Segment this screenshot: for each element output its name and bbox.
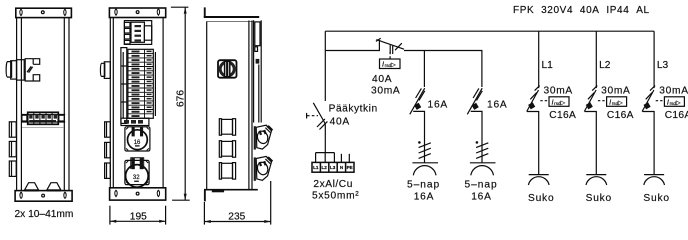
svg-text:Suko: Suko xyxy=(586,193,612,204)
din terminal left strip xyxy=(121,48,127,124)
svg-text:I rsd▷: I rsd▷ xyxy=(667,97,681,106)
terminal block X1 xyxy=(312,162,354,172)
conductor dot branch1 xyxy=(418,141,421,144)
supply comb drop L3 xyxy=(333,153,335,163)
conductor slashes branch2 xyxy=(476,143,488,148)
breaker F2 blade xyxy=(467,88,482,114)
bottom bracket left slot xyxy=(115,190,117,196)
RCD main sensor box xyxy=(380,59,401,69)
din comb contact dashes xyxy=(132,51,152,117)
single-line schematic xyxy=(307,5,688,204)
dim 676 top tick xyxy=(171,6,189,8)
svg-text:30mA: 30mA xyxy=(601,85,630,96)
svg-text:L1: L1 xyxy=(313,165,319,170)
lower module above socket xyxy=(121,118,149,125)
dim 195 left extension xyxy=(109,206,111,225)
breaker F1 pole slashes xyxy=(416,88,422,98)
flange inner line xyxy=(258,65,260,123)
left wall outer xyxy=(16,18,18,191)
terminal rail left cap xyxy=(22,115,27,121)
left hinge tab 2 xyxy=(105,142,111,157)
rcbo L2 blade xyxy=(584,90,596,112)
rcbo L2 thermal element xyxy=(586,102,593,109)
rcbo L2 contact tick xyxy=(592,86,597,91)
rcbo L3 lower jog xyxy=(642,112,654,175)
svg-text:40A: 40A xyxy=(372,74,392,85)
svg-text:30mA: 30mA xyxy=(371,86,400,97)
socket 32A circle xyxy=(126,165,149,188)
tilted socket upper xyxy=(254,125,273,149)
svg-text:32: 32 xyxy=(133,175,140,181)
door face line 1 xyxy=(248,21,250,190)
breaker F2 thermal element xyxy=(472,103,479,110)
terminal rail right cap xyxy=(59,115,65,121)
top edge (bold) xyxy=(204,16,259,18)
bottom mounting bracket xyxy=(15,191,72,202)
wire bus2 left segment xyxy=(325,40,379,50)
svg-text:L3: L3 xyxy=(330,165,336,170)
socket 32A corner marks xyxy=(126,161,148,184)
svg-text:C16A: C16A xyxy=(665,110,688,121)
svg-text:16A: 16A xyxy=(414,191,435,202)
wire bus2 right segment xyxy=(404,51,482,88)
dim 676 bottom tick xyxy=(172,199,190,201)
main switch Q1 actuator dashed link xyxy=(307,115,318,117)
socket symbol branch2 xyxy=(470,162,496,164)
terminal rail lines xyxy=(21,114,65,116)
svg-text:30mA: 30mA xyxy=(544,85,573,96)
left wall xyxy=(206,22,208,190)
rcbo L1 blade xyxy=(527,90,539,112)
svg-text:5–nap: 5–nap xyxy=(407,179,440,190)
socket 16A circle xyxy=(127,130,147,150)
bottom mounting bracket xyxy=(110,188,166,200)
top mounting bracket xyxy=(109,8,165,18)
rcbo L1 sensor box xyxy=(549,97,569,107)
terminal labels xyxy=(313,165,353,170)
wire L3 drop xyxy=(653,31,655,88)
dim 235 left extension xyxy=(203,202,205,225)
din rail shadow line xyxy=(22,127,64,129)
left hinge tab 1 xyxy=(105,122,111,137)
bottom bracket left slot xyxy=(20,192,22,198)
flange latch blob xyxy=(256,59,260,64)
rcbo L1 dashed link xyxy=(540,100,548,102)
dim 235 right extension xyxy=(270,181,272,225)
right wall outer xyxy=(68,18,70,191)
socket symbol L2 xyxy=(586,174,606,176)
socket 16A square xyxy=(125,127,150,151)
svg-text:C16A: C16A xyxy=(549,110,576,121)
supply comb drop L2 xyxy=(324,153,326,163)
rcbo L3 pole slash xyxy=(646,93,652,100)
rcbo L2 pole slash xyxy=(588,93,594,100)
inlet module top outer xyxy=(124,21,151,45)
RCD main dashed link to box xyxy=(389,52,391,59)
breaker F1 thermal element xyxy=(414,103,421,110)
cable entry trapezoid left xyxy=(24,183,38,191)
din comb rows xyxy=(128,49,153,118)
svg-text:N: N xyxy=(340,165,344,170)
gland block 2 xyxy=(219,141,235,158)
inlet module contacts xyxy=(135,25,142,42)
left wall inner (door edge) xyxy=(20,18,22,191)
left wall outer xyxy=(109,18,111,188)
switch mount hatch xyxy=(27,66,33,72)
rcbo L1 pole slash xyxy=(530,93,536,100)
svg-text:Suko: Suko xyxy=(528,193,554,204)
svg-text:L2: L2 xyxy=(322,165,328,170)
terminal block screws xyxy=(29,114,57,122)
top bracket right slot xyxy=(157,9,159,15)
terminal block dividers xyxy=(34,112,52,124)
main switch Q1 blade xyxy=(313,103,324,122)
cable entry trapezoid right xyxy=(47,183,61,191)
breaker F2 lower jog xyxy=(471,111,482,162)
left hinge tab 2 xyxy=(9,141,16,156)
terminal block (bold) xyxy=(28,112,59,124)
bottom bracket center hole xyxy=(136,192,139,195)
left hinge tab 3 xyxy=(9,161,16,176)
main switch Q1 pole slashes xyxy=(317,119,325,127)
svg-text:FPK 320V4 40A IP44 AL: FPK 320V4 40A IP44 AL xyxy=(513,5,650,16)
rcbo L2 sensor box xyxy=(607,97,627,107)
svg-text:5x50mm²: 5x50mm² xyxy=(312,190,359,201)
conductor dot branch2 xyxy=(476,141,479,144)
rcbo L3 thermal element xyxy=(644,102,651,109)
main switch Q1 handle xyxy=(306,113,308,119)
stub N xyxy=(340,154,342,163)
rcbo L3 dashed link xyxy=(656,100,664,102)
right wall inner xyxy=(63,18,65,191)
tilted socket lower xyxy=(254,156,273,180)
door face line 2 xyxy=(251,21,253,190)
inlet module left cells xyxy=(124,22,130,44)
dim 676 line with arrows xyxy=(184,7,186,200)
svg-text:I rsd▷: I rsd▷ xyxy=(382,60,396,69)
dim 195 line with arrows xyxy=(110,220,166,222)
top bracket left slot xyxy=(115,9,117,15)
bottom gland nut xyxy=(212,190,224,192)
din comb right edge xyxy=(154,52,156,116)
rcbo L1 contact tick xyxy=(535,86,540,91)
top inner line xyxy=(206,21,253,23)
svg-text:2x 10–41mm: 2x 10–41mm xyxy=(15,209,74,220)
rcbo L3 contact tick xyxy=(650,86,655,91)
socket 16A corner marks xyxy=(126,127,149,150)
gland block 1 xyxy=(219,119,235,136)
wire L1 drop xyxy=(538,31,540,88)
svg-text:30mA: 30mA xyxy=(659,85,688,96)
switch knob handle xyxy=(225,61,230,76)
rcbo L2 lower jog xyxy=(585,112,597,175)
rcbo L3 sensor box xyxy=(664,97,684,107)
top mounting bracket xyxy=(16,8,72,17)
breaker F1 lower jog xyxy=(413,111,424,162)
left hinge tab 1 xyxy=(9,122,16,137)
switch mount bracket with notch xyxy=(25,59,40,81)
socket symbol branch1 xyxy=(412,162,438,164)
bottom bracket right slot xyxy=(64,192,66,198)
flange rect 2 xyxy=(255,47,258,52)
rcbo L3 blade xyxy=(642,90,654,112)
supply comb bar xyxy=(316,152,335,154)
right wall xyxy=(162,18,164,188)
socket 32A pins xyxy=(131,158,143,169)
din terminal comb body xyxy=(128,49,153,118)
svg-text:L1: L1 xyxy=(542,60,554,71)
top bracket left slot xyxy=(20,9,22,15)
svg-text:C16A: C16A xyxy=(607,110,634,121)
svg-text:676: 676 xyxy=(175,90,186,107)
top bracket center hole xyxy=(41,11,44,14)
switch knob square xyxy=(218,60,237,77)
svg-text:5–nap: 5–nap xyxy=(465,179,498,190)
enclosure front view (door open) xyxy=(100,7,189,224)
svg-text:16: 16 xyxy=(134,140,141,146)
inlet module right tab xyxy=(144,26,151,40)
main switch handle shaft rects xyxy=(6,62,11,78)
svg-text:16A: 16A xyxy=(471,191,492,202)
svg-text:16A: 16A xyxy=(487,99,508,110)
dim 195 right extension xyxy=(165,206,167,225)
RCD main contact tick xyxy=(376,38,381,41)
socket 16A pins xyxy=(132,127,144,137)
RCD main blade xyxy=(376,40,404,50)
stub PE xyxy=(348,154,350,163)
wire L2 drop xyxy=(595,31,597,88)
svg-text:I rsd▷: I rsd▷ xyxy=(609,97,623,106)
supply comb drop L1 xyxy=(315,153,317,163)
socket symbol L1 xyxy=(529,174,549,176)
RCD main pole count mark xyxy=(389,45,391,53)
inlet module inner plate xyxy=(131,22,144,42)
rcbo L2 dashed link xyxy=(598,100,606,102)
left wall inner xyxy=(112,18,114,188)
rcbo L1 thermal element xyxy=(528,102,535,109)
svg-text:PE: PE xyxy=(347,165,353,170)
socket 32A square xyxy=(125,160,149,184)
bottom bracket center hole xyxy=(42,194,45,197)
conductor slashes branch1 xyxy=(419,143,431,148)
left hinge tab 3 xyxy=(105,163,111,178)
svg-text:16A: 16A xyxy=(428,99,449,110)
breaker F2 pole slashes xyxy=(473,88,479,98)
svg-text:I rsd▷: I rsd▷ xyxy=(552,97,566,106)
wire top bus xyxy=(325,30,654,32)
svg-text:Pääkytkin: Pääkytkin xyxy=(329,104,378,115)
top bracket center hole xyxy=(136,11,139,14)
bottom bracket tab (side) xyxy=(204,190,206,201)
socket symbol L3 xyxy=(644,174,664,176)
top bracket tab (side) xyxy=(204,7,206,17)
enclosure front view (closed door) xyxy=(6,8,73,220)
RCD main pole slash xyxy=(395,43,402,50)
wire branch1 tap xyxy=(423,51,425,88)
svg-text:Suko: Suko xyxy=(643,193,669,204)
svg-text:L2: L2 xyxy=(599,60,611,71)
svg-text:L3: L3 xyxy=(657,60,669,71)
breaker F1 blade xyxy=(410,88,425,114)
wire below main switch xyxy=(324,122,325,153)
handle shaft (open view) xyxy=(100,63,104,76)
rcbo L1 lower jog xyxy=(527,112,539,175)
door flange lines xyxy=(253,20,255,122)
dim 235 line with arrows xyxy=(204,221,270,223)
svg-text:235: 235 xyxy=(228,212,245,223)
bottom bracket right slot xyxy=(157,190,159,196)
svg-text:2xAl/Cu: 2xAl/Cu xyxy=(313,179,353,190)
socket 32A pin frame xyxy=(131,158,144,169)
top bracket right slot xyxy=(64,9,66,15)
enclosure side view xyxy=(204,7,273,224)
svg-text:40A: 40A xyxy=(330,117,350,128)
wire feeder vertical xyxy=(324,31,326,101)
bottom edge xyxy=(204,189,258,191)
flange rect 1 xyxy=(255,22,260,46)
gland block 3 xyxy=(219,163,235,180)
switch knob circle xyxy=(220,62,234,76)
svg-text:195: 195 xyxy=(130,211,147,222)
